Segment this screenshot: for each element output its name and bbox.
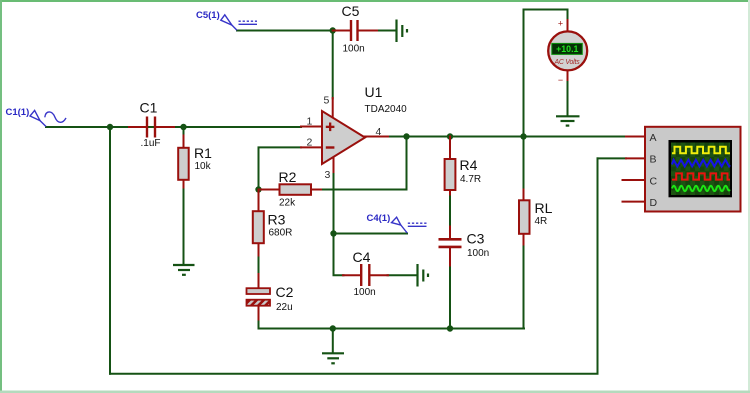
svg-text:AC Volts: AC Volts [554, 59, 581, 66]
wire ground rail stub [332, 329, 334, 353]
wire C4 tap [334, 233, 408, 235]
junction output-R4 node [447, 133, 453, 139]
pin R1 bottom [183, 180, 185, 188]
capacitor C2 electrolytic bottom plate [247, 300, 271, 306]
waveform red channel C [672, 173, 730, 179]
junction output-R2 node [403, 133, 409, 139]
pin C2 bottom [258, 306, 260, 320]
svg-text:D: D [650, 197, 658, 209]
wire R3 to C2 [258, 255, 260, 275]
pin C3 bottom [449, 248, 451, 266]
pin C1 right [156, 126, 174, 128]
capacitor C2 electrolytic top plate [247, 288, 271, 294]
wire C5 row [237, 30, 333, 32]
svg-text:10k: 10k [195, 161, 212, 172]
wire R1 bottom to ground [183, 187, 185, 265]
resistor R2 [280, 184, 312, 195]
wire C2 to ground rail [259, 319, 525, 329]
pin C5 right [358, 30, 377, 32]
pin meter bottom [567, 71, 569, 81]
svg-text:B: B [650, 154, 657, 166]
svg-text:R2: R2 [279, 169, 297, 185]
pin U1 1 [301, 126, 322, 128]
wire C4 to ground [388, 274, 417, 276]
resistor R1 [178, 148, 189, 180]
svg-text:4: 4 [376, 126, 382, 138]
junction ground rail C3 node [447, 325, 453, 331]
resistor R3 [253, 211, 264, 243]
pin RL bottom [523, 234, 525, 245]
junction ground rail C2 node [330, 325, 336, 331]
svg-text:RL: RL [535, 200, 553, 216]
junction R2 node [255, 186, 261, 192]
wire scope B feed [598, 157, 627, 159]
junction C4 tap node [330, 230, 336, 236]
waveform yellow channel A [672, 147, 730, 153]
wire pin5 vertical [332, 31, 334, 99]
svg-text:2: 2 [307, 137, 313, 149]
pin scope C [623, 179, 646, 181]
svg-text:C: C [650, 175, 658, 187]
svg-text:C3: C3 [467, 231, 485, 247]
svg-text:C1: C1 [140, 100, 158, 116]
ground R1 [173, 265, 195, 275]
svg-text:3: 3 [325, 169, 331, 181]
ground meter [556, 116, 580, 125]
wire input row [46, 126, 301, 128]
svg-text:R3: R3 [268, 212, 286, 228]
page border right [748, 0, 750, 393]
wire R2 to output node [321, 137, 407, 190]
junction input node [107, 124, 113, 130]
op-amp U1 [322, 111, 365, 164]
waveform green channel D [672, 186, 730, 191]
svg-text:C4: C4 [353, 249, 371, 265]
wire RL bottom [523, 244, 525, 329]
wire RL top [523, 137, 525, 191]
capacitor C5 [351, 20, 358, 41]
oscilloscope body [645, 127, 741, 212]
pin R4 bottom [449, 190, 451, 195]
pin R2 right [311, 189, 322, 191]
svg-text:+10.1: +10.1 [556, 44, 578, 54]
wire meter branch [524, 10, 568, 137]
svg-text:−: − [558, 75, 563, 85]
pin RL top [523, 190, 525, 201]
svg-text:R4: R4 [460, 157, 478, 173]
pin C3 top [449, 227, 451, 239]
svg-text:C1(1): C1(1) [6, 107, 30, 118]
pin C2 top [258, 274, 260, 288]
svg-text:.1uF: .1uF [141, 138, 161, 149]
pin C5 left [333, 30, 351, 32]
wire meter to ground [567, 80, 569, 116]
wire pin2 L [259, 147, 302, 189]
wire feedback left vertical [109, 127, 111, 374]
wire pin3 vertical [334, 172, 344, 276]
resistor R4 [445, 159, 456, 190]
svg-text:TDA2040: TDA2040 [365, 104, 408, 115]
svg-text:100n: 100n [354, 287, 376, 298]
pin C1 left [129, 126, 146, 128]
svg-text:4R: 4R [535, 216, 548, 227]
junction C1-R1 node [180, 124, 186, 130]
voltmeter AC [548, 19, 587, 86]
pin U1 5 [332, 98, 334, 119]
pin R2 left [259, 189, 280, 191]
terminal C4(1) symbol [392, 217, 427, 233]
ground C5 sideways [397, 20, 408, 43]
svg-text:C2: C2 [276, 284, 294, 300]
wire output row [388, 136, 627, 138]
svg-text:22u: 22u [276, 302, 293, 313]
capacitor C1 [147, 117, 155, 138]
svg-text:100n: 100n [343, 44, 365, 55]
pin R4 top [449, 137, 451, 160]
svg-text:4.7R: 4.7R [460, 174, 481, 185]
svg-text:100n: 100n [467, 248, 489, 259]
pin U1 3 [333, 157, 335, 173]
svg-text:R1: R1 [194, 145, 212, 161]
page border top [0, 0, 750, 2]
pin U1 4 [365, 136, 389, 138]
waveform blue channel B [672, 160, 730, 167]
svg-text:22k: 22k [279, 198, 296, 209]
pin meter top [567, 20, 569, 32]
svg-text:1: 1 [307, 116, 313, 128]
wire R4 mid [449, 194, 451, 227]
svg-text:A: A [650, 132, 657, 144]
ground rail (C2 node) [322, 353, 344, 363]
svg-text:U1: U1 [365, 84, 383, 100]
resistor RL [519, 200, 530, 234]
pin C4 left [343, 274, 361, 276]
pin scope B [626, 157, 645, 159]
pin R3 bottom [258, 243, 260, 256]
source C1(1) symbol [30, 110, 66, 126]
oscilloscope screen frame [669, 140, 733, 197]
svg-text:680R: 680R [269, 228, 293, 239]
terminal C5(1) symbol [221, 15, 257, 30]
junction C5 node [330, 27, 336, 33]
pin R1 top [183, 136, 185, 149]
pin C4 right [370, 274, 388, 276]
svg-text:C4(1): C4(1) [367, 213, 391, 224]
oscilloscope screen [671, 143, 730, 196]
ground C4 sideways [418, 264, 429, 287]
junction output-RL node [520, 133, 526, 139]
capacitor C4 [361, 264, 369, 286]
pin R3 top [258, 190, 260, 212]
wire C5 to ground [377, 30, 397, 32]
svg-text:C5(1): C5(1) [196, 10, 220, 21]
pin U1 2 [301, 146, 322, 148]
page border left [0, 0, 2, 393]
svg-text:+: + [558, 19, 563, 29]
svg-text:5: 5 [324, 95, 330, 107]
pin scope D [623, 201, 646, 203]
page border bottom [0, 391, 750, 393]
wire C3 bottom [449, 265, 451, 329]
wire R1 top [183, 127, 185, 136]
wire bottom feedback rail [110, 158, 598, 373]
capacitor C3 [439, 239, 462, 247]
pin scope A [626, 136, 645, 138]
svg-text:C5: C5 [342, 3, 360, 19]
